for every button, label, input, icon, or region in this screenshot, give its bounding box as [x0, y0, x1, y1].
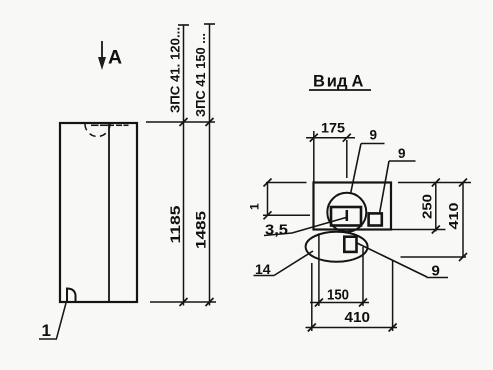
svg-text:9: 9	[398, 146, 406, 161]
svg-text:3,5: 3,5	[265, 223, 288, 239]
svg-text:150: 150	[327, 287, 349, 304]
svg-text:14: 14	[255, 261, 271, 277]
svg-text:1485: 1485	[193, 211, 209, 249]
svg-text:175: 175	[321, 120, 345, 136]
svg-text:250: 250	[421, 194, 435, 219]
svg-text:A: A	[108, 47, 122, 69]
svg-text:ЗПС 41 150 ...: ЗПС 41 150 ...	[194, 33, 208, 117]
svg-text:9: 9	[432, 263, 440, 280]
svg-text:ВидА: ВидА	[313, 73, 364, 91]
svg-text:9: 9	[370, 128, 378, 143]
svg-text:1185: 1185	[167, 205, 183, 243]
svg-text:1: 1	[42, 321, 51, 340]
svg-text:410: 410	[345, 309, 371, 326]
svg-text:ЗПС 41. 120...: ЗПС 41. 120...	[169, 27, 183, 113]
svg-text:410: 410	[447, 202, 461, 229]
svg-text:1: 1	[248, 203, 262, 210]
